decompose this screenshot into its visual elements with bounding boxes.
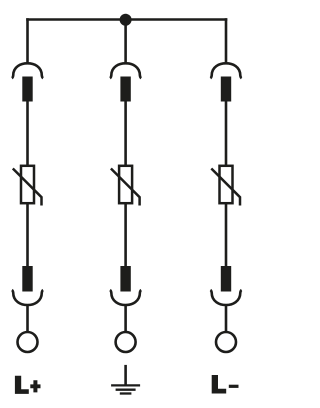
disconnect element lower (filled bar) branch 3 (221, 266, 231, 292)
terminal circle branch 3 (216, 332, 236, 352)
connector arc top (plug-in contact) branch 3 (210, 63, 241, 78)
label L- minus sign (229, 385, 239, 388)
disconnect element upper (filled bar) branch 2 (120, 77, 130, 102)
varistor RV2 diagonal stroke with tail (111, 169, 140, 206)
wire branch 1 upper bar to varistor (26, 101, 29, 167)
connector arc bottom (plug-in contact) branch 3 (210, 290, 241, 305)
ground symbol bar 2 (middle) (116, 389, 136, 391)
wire branch 2 upper bar to varistor (124, 101, 127, 167)
wire branch 2 bottom contact to terminal (124, 304, 127, 332)
terminal circle branch 1 (18, 332, 38, 352)
label L- letter L (212, 375, 227, 394)
connector arc bottom (plug-in contact) branch 1 (12, 290, 43, 305)
wire branch 2 varistor to lower bar (124, 202, 127, 266)
varistor RV3 body (220, 166, 233, 203)
varistor RV1 diagonal stroke with tail (13, 169, 42, 206)
wire branch 3 from bus to top plug contact (225, 18, 228, 62)
ground symbol stem (124, 365, 127, 385)
disconnect element lower (filled bar) branch 1 (22, 266, 32, 292)
label L+ plus sign (30, 380, 40, 392)
wire branch 3 varistor to lower bar (225, 202, 228, 266)
disconnect element upper (filled bar) branch 3 (221, 77, 231, 102)
ground symbol bar 3 (narrowest) (120, 392, 132, 394)
wire branch 1 bottom contact to terminal (26, 304, 29, 332)
varistor RV3 diagonal stroke with tail (211, 169, 240, 206)
wire branch 3 bottom contact to terminal (225, 304, 228, 332)
ground symbol bar 1 (widest) (111, 384, 140, 386)
varistor RV2 body (119, 166, 132, 203)
node junction dot on top bus (120, 14, 132, 26)
wire top bus horizontal (26, 18, 227, 21)
connector arc bottom (plug-in contact) branch 2 (110, 290, 141, 305)
disconnect element lower (filled bar) branch 2 (120, 266, 130, 292)
connector arc top (plug-in contact) branch 1 (12, 63, 43, 78)
disconnect element upper (filled bar) branch 1 (22, 77, 32, 102)
wire branch 2 from bus to top plug contact (124, 18, 127, 62)
connector arc top (plug-in contact) branch 2 (110, 63, 141, 78)
varistor RV1 body (21, 166, 34, 203)
wire branch 3 upper bar to varistor (225, 101, 228, 167)
terminal circle branch 2 (116, 332, 136, 352)
label L+ letter L (15, 376, 29, 394)
wire branch 1 from bus to top plug contact (26, 18, 29, 62)
wire branch 1 varistor to lower bar (26, 202, 29, 266)
